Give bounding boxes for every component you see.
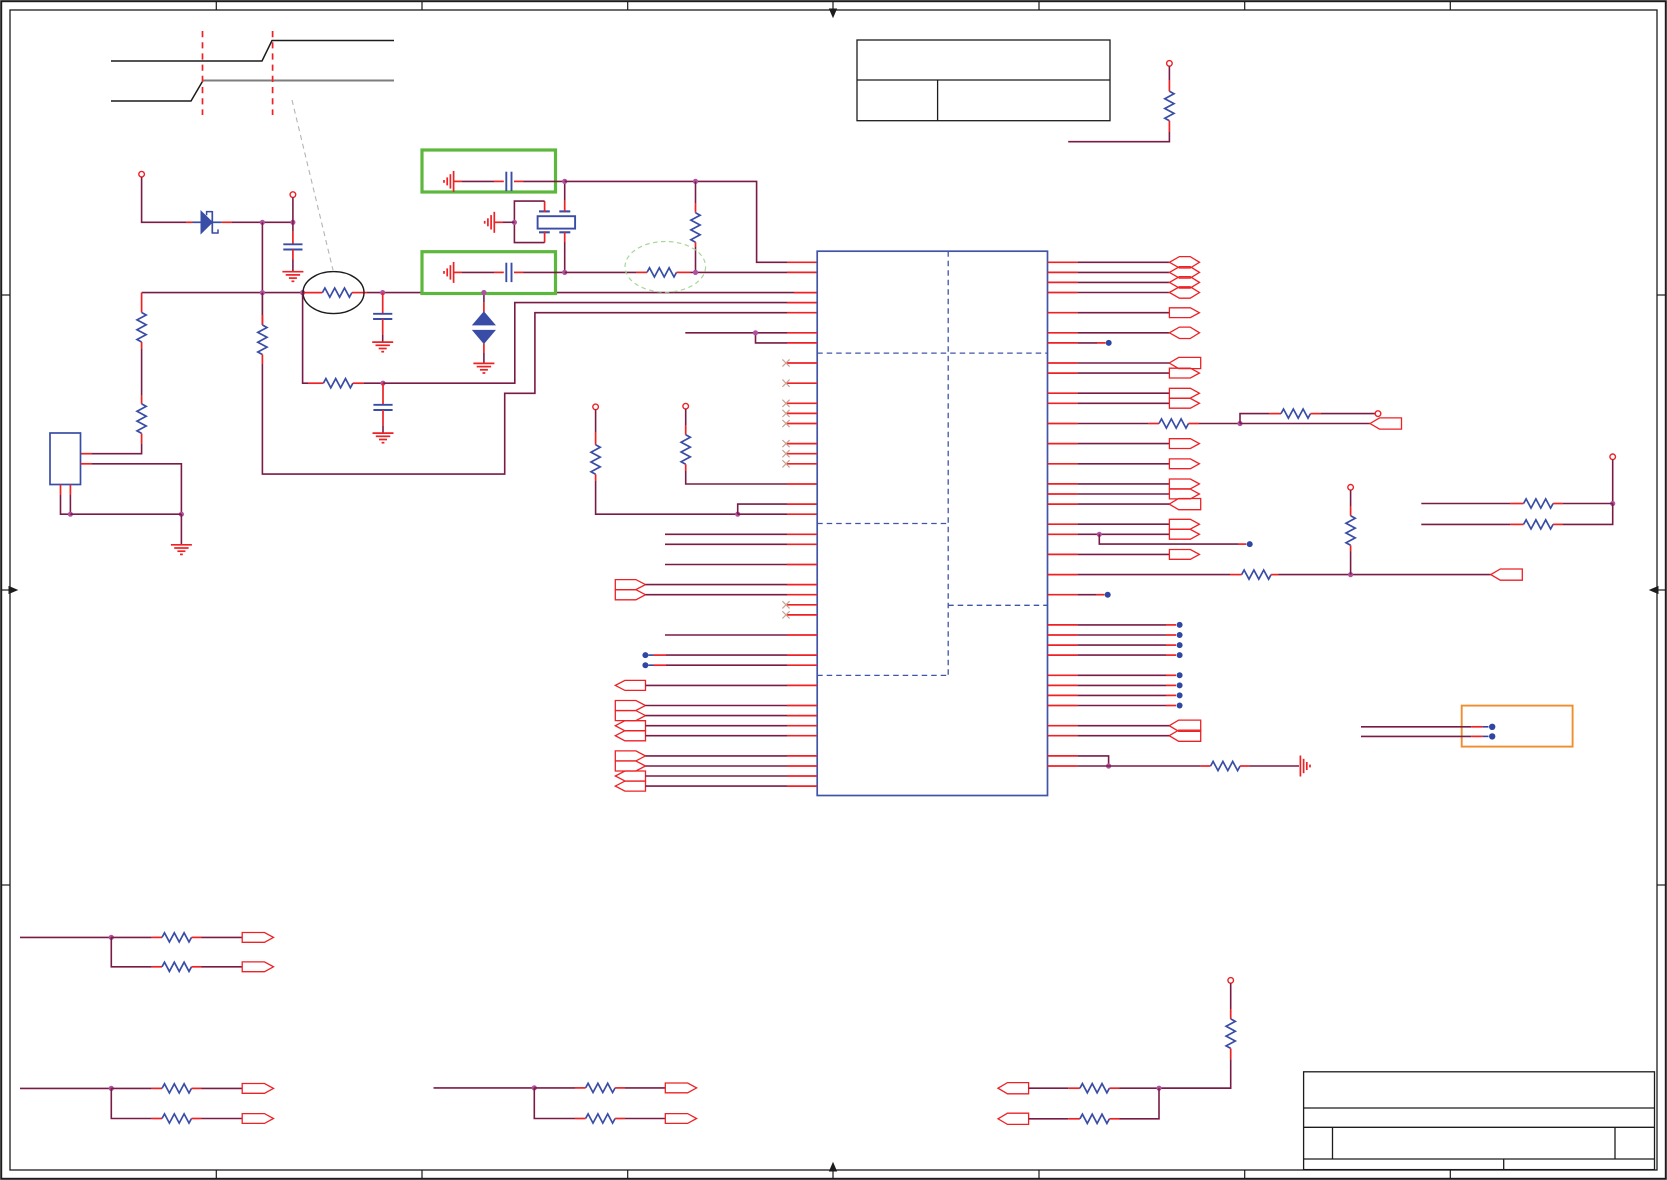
pin stub bbox=[454, 271, 462, 273]
junction bbox=[380, 381, 385, 386]
no-ERC blue dot terminal bbox=[1048, 644, 1078, 646]
pin stub bbox=[1168, 80, 1170, 91]
wire bbox=[646, 775, 788, 777]
junction bbox=[260, 290, 265, 295]
zone arrow right bbox=[1658, 589, 1666, 591]
wire to ground net bbox=[92, 464, 181, 514]
ground bbox=[171, 544, 192, 546]
resistor R18 bbox=[162, 933, 192, 942]
pin stub bbox=[1230, 1009, 1232, 1019]
junction bbox=[562, 270, 567, 275]
wire bbox=[503, 221, 514, 223]
wire to IC pin bbox=[665, 533, 787, 535]
wire bbox=[1078, 493, 1170, 495]
port output pentagon bbox=[1169, 489, 1199, 499]
pin stub bbox=[1048, 553, 1078, 555]
terminal T5 bbox=[1375, 411, 1381, 417]
wire bbox=[1120, 1088, 1160, 1119]
terminal T7 bbox=[1610, 454, 1616, 460]
wire bbox=[1350, 490, 1352, 506]
port input rect-left pair bbox=[1169, 720, 1201, 731]
pin stub bbox=[1048, 281, 1078, 283]
resistor R16 bbox=[1524, 520, 1554, 529]
wire bbox=[685, 409, 687, 425]
wire branch to blue dot bbox=[1099, 534, 1238, 544]
pin stub bbox=[685, 425, 687, 435]
pin stub bbox=[60, 485, 62, 496]
junction bbox=[481, 290, 486, 295]
wire to IC pin L18 bbox=[596, 481, 738, 514]
ground sideways bbox=[453, 171, 455, 192]
pin stub bbox=[186, 221, 193, 223]
port bidirectional hexagon bbox=[1169, 287, 1199, 298]
pin stub bbox=[564, 232, 566, 242]
no-ERC blue dot terminal bbox=[1048, 705, 1078, 707]
no-ERC blue dot terminal bbox=[1048, 624, 1078, 626]
wire bbox=[292, 222, 294, 231]
port bidirectional hexagon bbox=[1169, 267, 1199, 278]
pin stub bbox=[1048, 533, 1078, 535]
no-ERC blue dot terminal bbox=[1048, 674, 1078, 676]
wire bbox=[1321, 413, 1375, 415]
wire bbox=[565, 271, 636, 273]
pin stub bbox=[1048, 362, 1078, 364]
pin stub bbox=[353, 382, 364, 384]
pin stub bbox=[261, 293, 263, 325]
pin stub bbox=[575, 1118, 586, 1120]
terminal T6 bbox=[1348, 485, 1354, 491]
junction bbox=[562, 179, 567, 184]
pin stub bbox=[1200, 765, 1210, 767]
junction bbox=[512, 220, 517, 225]
wire bbox=[1078, 362, 1170, 364]
pin stub bbox=[685, 464, 687, 471]
pin stub bbox=[787, 261, 817, 263]
pin stub bbox=[787, 533, 817, 535]
junction bbox=[1156, 1086, 1161, 1091]
pin stub bbox=[1048, 765, 1078, 767]
pin stub bbox=[787, 271, 817, 273]
ground sideways bbox=[453, 262, 455, 283]
junction bbox=[1610, 501, 1615, 506]
wire to IC pin L16 bbox=[686, 471, 787, 484]
pin stub bbox=[1048, 463, 1078, 465]
no-connect pin bbox=[787, 423, 817, 425]
resistor R1 bbox=[1165, 91, 1174, 121]
pin stub bbox=[1048, 443, 1078, 445]
pin stub bbox=[69, 485, 71, 496]
wire bbox=[666, 664, 787, 666]
wire crystal top right bbox=[564, 181, 566, 200]
wire bbox=[364, 382, 383, 384]
pin stub bbox=[787, 775, 817, 777]
port output pentagon bbox=[1169, 479, 1199, 489]
no-ERC blue dot terminal bbox=[1489, 733, 1495, 739]
pin stub bbox=[787, 634, 817, 636]
port arrow pair right-pointing bbox=[615, 751, 645, 761]
pin stub bbox=[1230, 574, 1242, 576]
port input rect-left bbox=[1169, 357, 1201, 368]
pin stub bbox=[514, 271, 524, 273]
junction bbox=[1237, 421, 1242, 426]
resistor R23 bbox=[586, 1114, 616, 1123]
pin stub bbox=[192, 966, 202, 968]
no-ERC blue dot terminal bbox=[1048, 694, 1078, 696]
pin stub bbox=[303, 292, 323, 294]
no-connect pin bbox=[787, 604, 817, 606]
pin stub bbox=[1350, 545, 1352, 551]
junction bbox=[109, 1086, 114, 1091]
no-connect pin bbox=[787, 362, 817, 364]
pin stub bbox=[1230, 1048, 1232, 1059]
port output pentagon bbox=[1169, 529, 1199, 539]
pin stub bbox=[787, 755, 817, 757]
junction bbox=[753, 330, 758, 335]
pin stub bbox=[222, 221, 232, 223]
pin stub bbox=[1553, 503, 1563, 505]
pin stub bbox=[1048, 392, 1078, 394]
wire branch up bbox=[1240, 414, 1269, 424]
wire bbox=[202, 1118, 243, 1120]
pin stub bbox=[352, 292, 367, 294]
timing diagram signal 2 high level bbox=[203, 80, 394, 82]
wire bbox=[1199, 423, 1240, 425]
port arrow left-pointing bbox=[615, 680, 645, 690]
no-connect pin bbox=[787, 463, 817, 465]
resistor R22 bbox=[586, 1083, 616, 1092]
wire bbox=[1078, 402, 1170, 404]
resistor R4 bbox=[258, 325, 267, 355]
ground sideways bbox=[493, 212, 495, 233]
terminal VCC top-right bbox=[1167, 61, 1173, 67]
port input rect-left bbox=[1370, 418, 1402, 429]
wire bbox=[382, 426, 384, 434]
terminal T1 bbox=[139, 171, 145, 177]
pin stub bbox=[1553, 523, 1563, 525]
pin stub bbox=[787, 503, 817, 505]
pin stub bbox=[1048, 574, 1078, 576]
wire to IC pin 1 bbox=[565, 181, 787, 262]
resistor R20 bbox=[162, 1084, 192, 1093]
pin stub bbox=[1048, 402, 1078, 404]
port input pentagon-left bbox=[998, 1083, 1029, 1094]
wire bbox=[61, 495, 71, 514]
wire bbox=[1078, 483, 1170, 485]
pin stub bbox=[152, 936, 162, 938]
pin stub bbox=[1271, 574, 1278, 576]
no-connect pin bbox=[787, 443, 817, 445]
terminal T4 bbox=[683, 403, 689, 409]
pin stub bbox=[292, 231, 294, 244]
pin stub bbox=[152, 966, 162, 968]
wire bbox=[1078, 392, 1170, 394]
pin stub bbox=[382, 293, 384, 314]
wire bbox=[292, 260, 294, 272]
pin stub bbox=[141, 396, 143, 404]
no-ERC blue dot terminal bbox=[1048, 684, 1078, 686]
wire diode output bbox=[232, 221, 293, 223]
wire bbox=[1078, 271, 1170, 273]
wire bbox=[1029, 1087, 1069, 1089]
wire bbox=[483, 293, 485, 303]
wire to connector pin 1 bbox=[92, 444, 142, 454]
port output pentagon bbox=[1169, 368, 1199, 378]
wire bbox=[202, 966, 243, 968]
wire bbox=[1078, 765, 1201, 767]
pin stub bbox=[152, 1087, 162, 1089]
IC internal dashed divider row 2 left bbox=[817, 523, 948, 525]
wire bbox=[646, 594, 788, 596]
wire bbox=[1078, 503, 1170, 505]
no-ERC blue dot terminal bbox=[648, 654, 653, 656]
pin stub bbox=[1048, 523, 1078, 525]
pin stub bbox=[152, 1118, 162, 1120]
port output pentagon bbox=[665, 1083, 696, 1093]
wire to IC pin L17 bbox=[738, 504, 787, 514]
wire bbox=[1078, 443, 1170, 445]
pin stub bbox=[615, 1118, 625, 1120]
callout leader dashed line bbox=[292, 100, 333, 270]
capacitor C4 bbox=[505, 172, 507, 191]
pin stub bbox=[81, 453, 93, 455]
port output pentagon bbox=[1169, 459, 1199, 469]
wire bbox=[142, 177, 186, 222]
wire bbox=[1078, 533, 1170, 535]
pin stub bbox=[1189, 423, 1200, 425]
wire bbox=[625, 1087, 665, 1089]
wire bbox=[1168, 66, 1170, 80]
wire bbox=[1350, 552, 1352, 575]
pin stub bbox=[595, 474, 597, 481]
port arrow pair left-pointing bbox=[615, 721, 645, 731]
wire bbox=[141, 349, 143, 396]
pin stub bbox=[483, 302, 485, 312]
capacitor C2 bbox=[373, 313, 392, 315]
pin stub bbox=[1510, 523, 1523, 525]
resistor R6 bbox=[323, 379, 353, 388]
pin stub bbox=[787, 684, 817, 686]
port input rect-left bbox=[1169, 499, 1201, 510]
no-ERC blue dot terminal bbox=[1048, 654, 1078, 656]
wire into orange box lower bbox=[1361, 735, 1471, 737]
wire to port bbox=[1240, 423, 1370, 425]
resistor R3 bbox=[137, 404, 146, 434]
junction bbox=[380, 290, 385, 295]
IC internal dashed divider vertical bbox=[947, 251, 949, 675]
ground bbox=[373, 432, 394, 434]
pin stub bbox=[695, 242, 697, 247]
pin stub bbox=[1068, 1087, 1080, 1089]
resistor R2 bbox=[137, 313, 146, 343]
capacitor C1 bbox=[283, 243, 302, 245]
pin stub bbox=[1048, 423, 1078, 425]
wire bbox=[1563, 503, 1613, 505]
port output pentagon bbox=[1169, 388, 1199, 398]
connector J1 body bbox=[50, 433, 81, 485]
wire to IC pin bbox=[665, 564, 787, 566]
capacitor C3 bbox=[373, 404, 392, 406]
wire bbox=[1078, 312, 1170, 314]
resistor R7 bbox=[691, 213, 700, 243]
wire bbox=[1078, 523, 1170, 525]
resistor R25 bbox=[1080, 1114, 1110, 1123]
no-ERC blue dot terminal bbox=[1048, 634, 1078, 636]
port bidirectional hexagon bbox=[1169, 257, 1199, 268]
wire to IC pin bbox=[665, 543, 787, 545]
pin stub bbox=[1109, 1118, 1119, 1120]
wire crystal left loop bbox=[514, 201, 544, 243]
pin stub bbox=[494, 221, 503, 223]
wire bbox=[1159, 1059, 1231, 1088]
resistor R26 bbox=[1226, 1019, 1235, 1049]
terminal T3 bbox=[593, 404, 599, 410]
resistor R19 bbox=[162, 962, 192, 971]
wire branch bbox=[111, 937, 151, 966]
resistor R5 circled bbox=[322, 288, 352, 297]
pin stub bbox=[636, 271, 647, 273]
pin stub bbox=[292, 250, 294, 260]
resistor R13 bbox=[1242, 570, 1272, 579]
wire bbox=[111, 1087, 151, 1089]
junction bbox=[1348, 572, 1353, 577]
port output pentagon bbox=[1169, 308, 1199, 318]
pin stub bbox=[575, 1087, 586, 1089]
wire bbox=[695, 247, 697, 272]
zone arrow top bbox=[832, 1, 834, 9]
pin stub bbox=[1048, 261, 1078, 263]
wire bbox=[70, 513, 181, 515]
pin stub bbox=[308, 382, 323, 384]
wire bbox=[1230, 983, 1232, 1009]
wire bbox=[1078, 553, 1170, 555]
pin stub bbox=[261, 355, 263, 365]
wire bbox=[202, 936, 243, 938]
pin stub bbox=[382, 410, 384, 426]
highlight ellipse around R5 bbox=[303, 272, 364, 314]
junction bbox=[260, 220, 265, 225]
terminal T2 bbox=[290, 192, 296, 198]
pin stub bbox=[787, 584, 817, 586]
wire upper row bbox=[1421, 503, 1510, 505]
crystal Y1 body bbox=[538, 216, 576, 228]
wire bbox=[1029, 1118, 1069, 1120]
capacitor C5 bbox=[505, 263, 507, 282]
wire to IC pins L6/L7 bbox=[685, 332, 755, 334]
wire bbox=[462, 271, 494, 273]
no-ERC blue dot terminal bbox=[1048, 342, 1078, 344]
wire bbox=[524, 180, 565, 182]
no-connect pin bbox=[787, 402, 817, 404]
no-ERC blue dot terminal bbox=[1489, 724, 1495, 730]
resistor R12 bbox=[1281, 409, 1311, 418]
wire bbox=[738, 513, 787, 515]
junction bbox=[1097, 532, 1102, 537]
pin stub bbox=[382, 319, 384, 335]
ground bbox=[372, 341, 393, 343]
pin stub bbox=[595, 432, 597, 445]
pin stub bbox=[1048, 755, 1078, 757]
timing cursor dashed line 2 bbox=[272, 31, 274, 115]
pin stub bbox=[615, 1087, 625, 1089]
port arrow pair left-pointing bbox=[615, 771, 645, 781]
wire bbox=[1563, 504, 1613, 525]
pin stub bbox=[141, 342, 143, 349]
junction bbox=[1106, 763, 1111, 768]
port bidirectional hexagon bbox=[1169, 277, 1199, 288]
pin stub bbox=[454, 180, 462, 182]
highlight green box 1 bbox=[422, 150, 556, 192]
port output pentagon bbox=[1169, 398, 1199, 408]
junction bbox=[300, 290, 305, 295]
pin stub bbox=[1068, 1118, 1080, 1120]
wire bbox=[1078, 281, 1170, 283]
wire bbox=[524, 271, 565, 273]
port output pentagon bbox=[1169, 439, 1199, 449]
resistor R8 bbox=[647, 268, 677, 277]
wire bbox=[691, 271, 788, 273]
highlight orange box bbox=[1462, 706, 1573, 747]
pin stub bbox=[1048, 332, 1078, 334]
junction bbox=[532, 1085, 537, 1090]
port input pentagon-left bbox=[998, 1113, 1029, 1124]
port input rect-left bbox=[1491, 569, 1523, 580]
wire bbox=[646, 584, 788, 586]
wire bbox=[1078, 725, 1170, 727]
wire bbox=[202, 1087, 243, 1089]
pin stub bbox=[787, 483, 817, 485]
IC internal dashed divider row 4 left bbox=[817, 674, 948, 676]
wire bbox=[69, 495, 71, 514]
pin stub bbox=[192, 1087, 202, 1089]
port bidirectional hexagon bbox=[1169, 327, 1199, 338]
wire bbox=[1612, 460, 1614, 504]
pin stub bbox=[192, 1118, 202, 1120]
pin stub bbox=[787, 664, 817, 666]
pin stub bbox=[1311, 413, 1322, 415]
pin stub bbox=[1269, 413, 1281, 415]
pin stub bbox=[514, 180, 524, 182]
IC internal dashed divider row 1 bbox=[817, 352, 1047, 354]
no-connect pin bbox=[787, 453, 817, 455]
pin stub bbox=[1048, 292, 1078, 294]
pin stub bbox=[1510, 503, 1523, 505]
port arrow pair right-pointing bbox=[615, 580, 645, 590]
wire bbox=[20, 936, 111, 938]
pin stub bbox=[192, 936, 202, 938]
wire bus VDD bbox=[142, 292, 303, 294]
wire to IC pin bbox=[665, 634, 787, 636]
pin stub bbox=[1048, 503, 1078, 505]
wire branch down bbox=[1078, 756, 1109, 766]
pin stub bbox=[787, 312, 817, 314]
wire bbox=[111, 936, 151, 938]
pin stub bbox=[787, 725, 817, 727]
wire net to IC pin L4 bbox=[383, 303, 787, 384]
wire branch bbox=[111, 1088, 151, 1118]
pin stub bbox=[1109, 1087, 1119, 1089]
port output pentagon bbox=[242, 962, 273, 972]
pin stub bbox=[1048, 271, 1078, 273]
diode D1 schottky bbox=[193, 221, 202, 223]
TVS diode D2 bbox=[473, 312, 495, 325]
port output pentagon bbox=[242, 933, 273, 943]
timing cursor dashed line 1 bbox=[202, 31, 204, 115]
wire bbox=[1078, 332, 1170, 334]
junction bbox=[693, 179, 698, 184]
pin stub bbox=[1350, 506, 1352, 516]
ground bbox=[282, 271, 303, 273]
pin stub bbox=[787, 654, 817, 656]
